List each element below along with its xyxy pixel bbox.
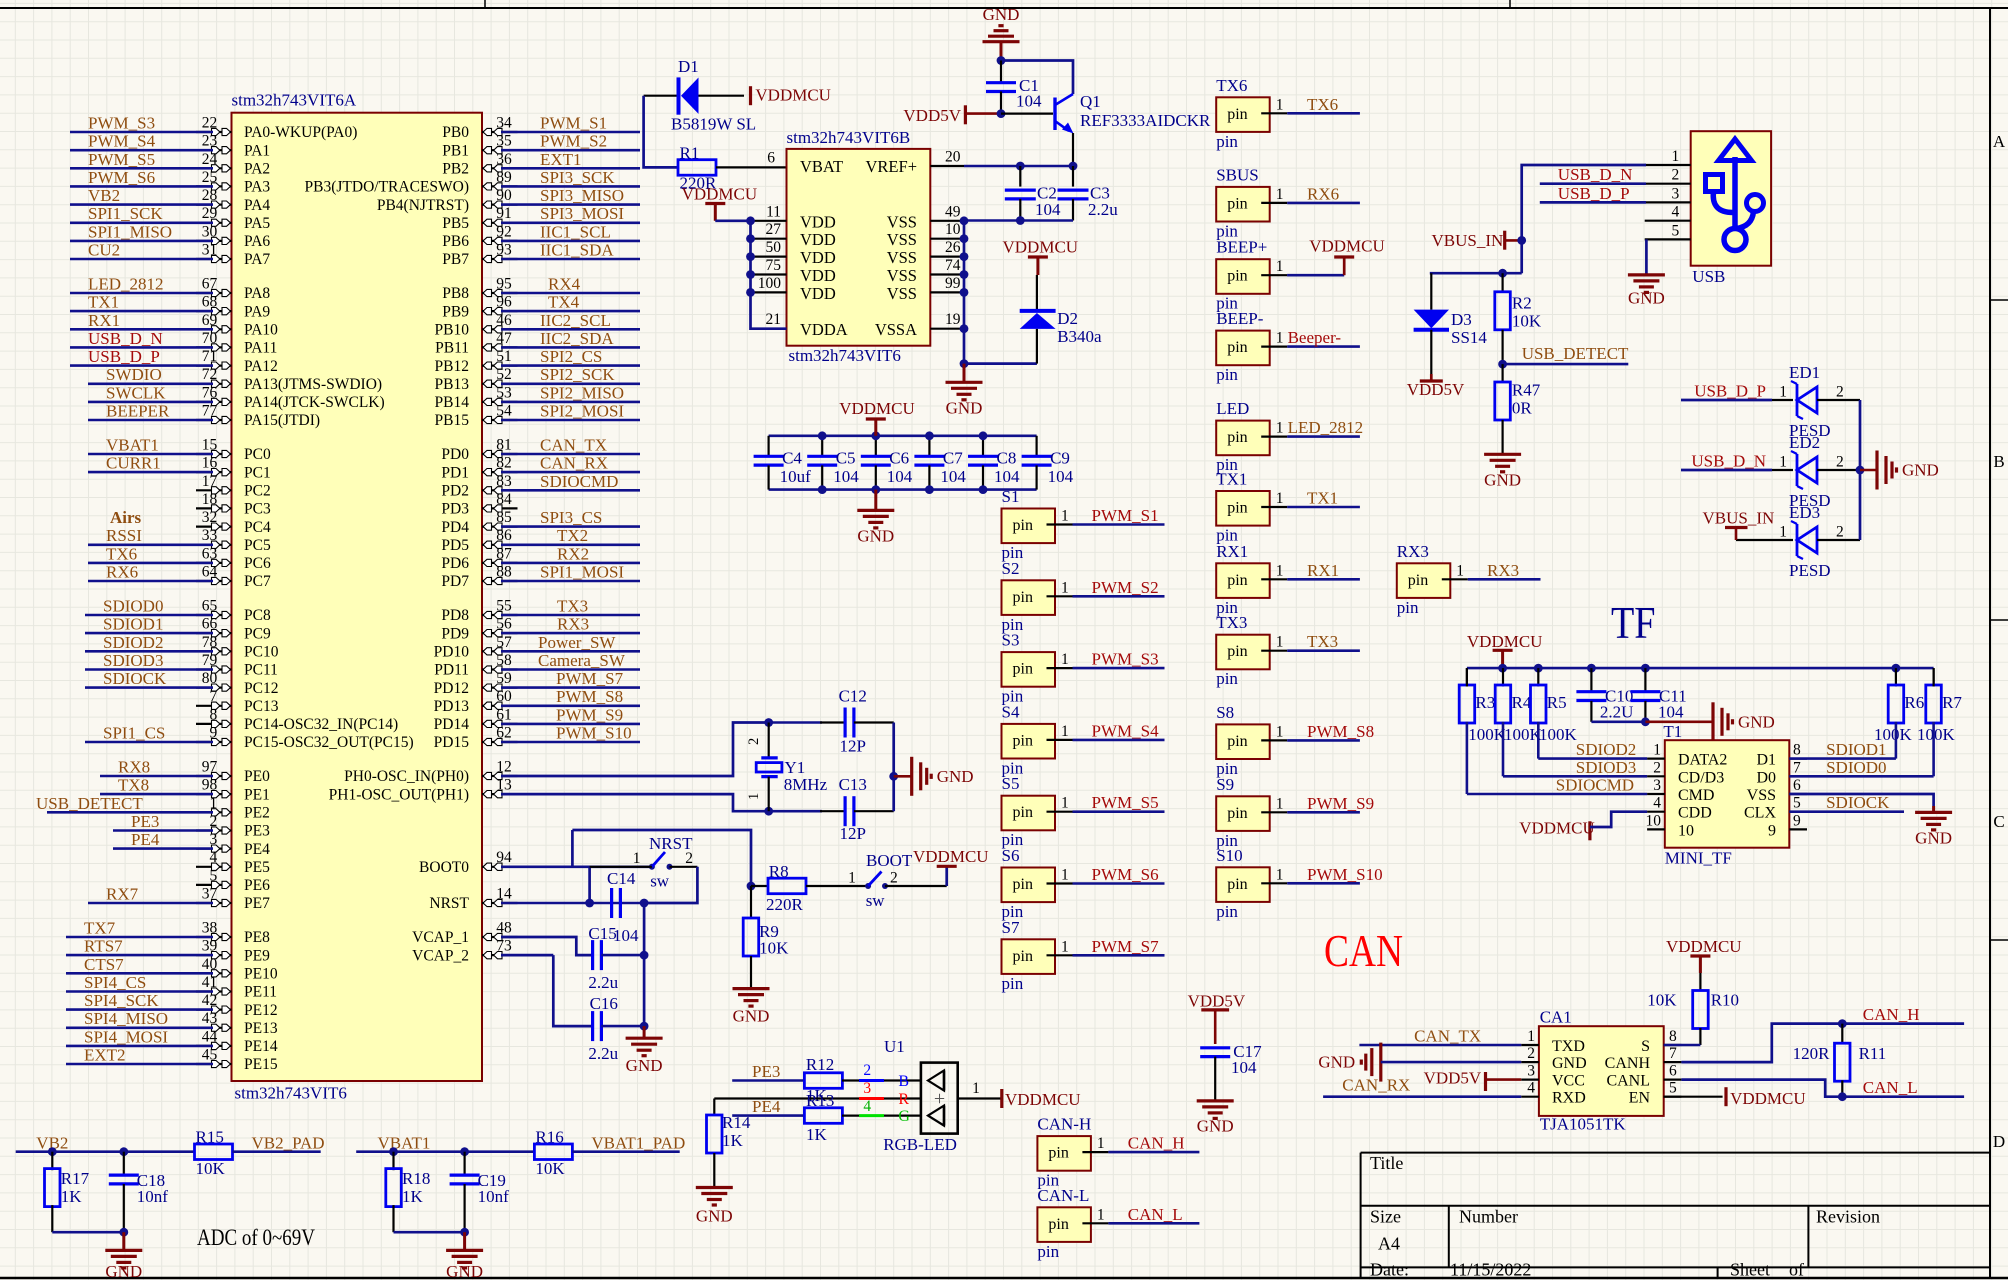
- svg-text:70: 70: [202, 330, 218, 347]
- svg-text:SPI1_MISO: SPI1_MISO: [88, 222, 172, 241]
- svg-text:104: 104: [833, 467, 859, 486]
- svg-text:C6: C6: [889, 449, 909, 468]
- svg-text:C4: C4: [782, 449, 802, 468]
- svg-text:IIC2_SCL: IIC2_SCL: [540, 311, 611, 330]
- pin 43 PE13: [196, 1027, 232, 1029]
- pin 16 PC1: [196, 471, 232, 473]
- wire SDIOD3: [1503, 775, 1647, 778]
- wire VREF rail: [964, 165, 1073, 168]
- svg-text:1: 1: [1276, 186, 1284, 203]
- svg-text:PWM_S1: PWM_S1: [1092, 506, 1159, 525]
- svg-text:Date:: Date:: [1370, 1260, 1409, 1280]
- resistor R8 220R: [751, 885, 768, 887]
- wire emitter: [1072, 133, 1074, 166]
- wire PE4: [732, 1114, 805, 1117]
- svg-text:PWM_S7: PWM_S7: [1092, 937, 1160, 956]
- svg-text:48: 48: [496, 920, 512, 937]
- svg-text:PD11: PD11: [434, 662, 469, 679]
- svg-text:33: 33: [202, 527, 218, 544]
- svg-text:104: 104: [940, 467, 966, 486]
- capacitor C12 12P: [820, 721, 845, 723]
- pin 57 PD10: [482, 650, 518, 652]
- svg-text:12P: 12P: [840, 824, 866, 843]
- wire EXT1: [501, 167, 640, 170]
- pin 45 PE15: [196, 1063, 232, 1065]
- svg-text:SPI2_SCK: SPI2_SCK: [540, 365, 615, 384]
- pin 7 PC13: [196, 705, 232, 707]
- pin 55 PD8: [482, 614, 518, 616]
- power port VDDMCU at LED: [1000, 1089, 1003, 1108]
- TVS diode ED3: [1796, 524, 1799, 556]
- wire SPI2_MOSI: [501, 419, 640, 422]
- svg-text:PH1-OSC_OUT(PH1): PH1-OSC_OUT(PH1): [329, 786, 469, 803]
- pin 30 PA6: [196, 240, 232, 242]
- svg-text:PWM_S3: PWM_S3: [88, 114, 155, 133]
- wire BOOT0 to switch: [501, 865, 652, 868]
- svg-text:104: 104: [613, 926, 639, 945]
- svg-text:PC4: PC4: [244, 519, 271, 536]
- pin 7 D0: [1789, 775, 1807, 777]
- svg-text:99: 99: [945, 275, 961, 292]
- svg-text:3: 3: [210, 831, 218, 848]
- svg-text:7: 7: [210, 688, 218, 705]
- svg-text:40: 40: [202, 956, 218, 973]
- resistor R15 10K: [195, 1144, 233, 1160]
- pin 5 CLX: [1789, 811, 1807, 813]
- svg-text:TF: TF: [1611, 597, 1656, 648]
- junction: [1587, 664, 1596, 673]
- wire to D3 and R2: [1430, 272, 1522, 275]
- svg-text:220R: 220R: [766, 895, 804, 914]
- pin 37 PE7: [196, 902, 232, 904]
- svg-text:CAN_H: CAN_H: [1863, 1005, 1920, 1024]
- wire Camera_SW: [501, 668, 640, 671]
- resistor R3 100K: [1466, 668, 1468, 686]
- wire PWM_S1: [1073, 523, 1165, 526]
- svg-text:PA8: PA8: [244, 285, 270, 302]
- svg-text:GND: GND: [446, 1262, 483, 1280]
- svg-text:VCAP_2: VCAP_2: [412, 947, 469, 964]
- svg-text:PB14: PB14: [435, 394, 470, 411]
- svg-text:47: 47: [496, 330, 512, 347]
- svg-text:73: 73: [496, 938, 512, 955]
- pin 68 PA9: [196, 310, 232, 312]
- pin 72 PA13(JTMS-SWDIO): [196, 383, 232, 385]
- wire ED bus: [1859, 400, 1862, 540]
- svg-text:U1: U1: [884, 1037, 905, 1056]
- svg-text:91: 91: [496, 205, 512, 222]
- svg-text:37: 37: [202, 886, 218, 903]
- wire TX3: [501, 614, 640, 617]
- pin 96 PB9: [482, 310, 518, 312]
- svg-text:PB3(JTDO/TRACESWO): PB3(JTDO/TRACESWO): [305, 179, 469, 196]
- svg-text:PB8: PB8: [442, 285, 469, 302]
- pin header RX1: [1216, 563, 1270, 598]
- wire crystal top rail: [769, 721, 822, 724]
- wire VCAP_2: [501, 954, 553, 957]
- svg-text:VDD5V: VDD5V: [1424, 1068, 1482, 1087]
- svg-text:10: 10: [1678, 822, 1694, 839]
- svg-text:2: 2: [863, 1062, 871, 1079]
- svg-text:RX1: RX1: [1216, 542, 1248, 561]
- pin 54 PB15: [482, 419, 518, 421]
- svg-text:PD14: PD14: [434, 716, 470, 733]
- pin header S1: [1002, 509, 1056, 544]
- wire NRST net: [501, 902, 590, 905]
- power port VDDMCU at BEEP+: [1334, 255, 1354, 258]
- svg-text:PE13: PE13: [244, 1020, 278, 1037]
- wire PWM_S5: [1073, 810, 1165, 813]
- pin 61 PD14: [482, 723, 518, 725]
- pin 52 PB13: [482, 383, 518, 385]
- svg-text:24: 24: [202, 151, 218, 168]
- svg-text:PB10: PB10: [435, 322, 470, 339]
- svg-text:TX4: TX4: [548, 293, 580, 312]
- svg-text:38: 38: [202, 920, 218, 937]
- capacitor C2 104: [1019, 166, 1021, 187]
- resistor R12 1K: [804, 1073, 842, 1089]
- svg-text:S9: S9: [1216, 775, 1234, 794]
- pin 66 PC9: [196, 632, 232, 634]
- svg-text:PA15(JTDI): PA15(JTDI): [244, 412, 320, 429]
- pin 6 VSS: [1789, 793, 1807, 795]
- svg-text:TX6: TX6: [106, 544, 137, 563]
- svg-text:25: 25: [202, 169, 218, 186]
- svg-text:VDD5V: VDD5V: [1407, 380, 1465, 399]
- pin 29 PA5: [196, 222, 232, 224]
- junction: [960, 359, 969, 368]
- pin 1 of S9: [1261, 811, 1287, 813]
- svg-text:USB_D_P: USB_D_P: [1694, 382, 1766, 401]
- svg-text:RSSI: RSSI: [106, 526, 142, 545]
- svg-text:S7: S7: [1002, 918, 1020, 937]
- svg-text:TJA1051TK: TJA1051TK: [1540, 1115, 1627, 1134]
- svg-text:GND: GND: [696, 1207, 733, 1226]
- svg-text:PC2: PC2: [244, 483, 271, 500]
- wire VBAT1: [88, 453, 213, 456]
- svg-text:8: 8: [1669, 1028, 1677, 1045]
- svg-text:sw: sw: [650, 872, 670, 891]
- junction: [640, 1022, 649, 1031]
- svg-text:CTS7: CTS7: [84, 955, 124, 974]
- svg-text:VDDMCU: VDDMCU: [1467, 632, 1543, 651]
- capacitor C18 10nf: [123, 1152, 125, 1175]
- svg-text:VDD5V: VDD5V: [1188, 992, 1246, 1011]
- LED diode arrows: [928, 1071, 944, 1091]
- wire R1 to VBAT pin 6: [716, 166, 787, 168]
- wire CAN_RX: [1323, 1095, 1521, 1098]
- svg-text:1: 1: [1276, 490, 1284, 507]
- svg-text:PE9: PE9: [244, 947, 270, 964]
- svg-text:SDIOD3: SDIOD3: [1576, 758, 1636, 777]
- svg-text:EXT2: EXT2: [84, 1046, 126, 1065]
- svg-text:VCAP_1: VCAP_1: [412, 929, 469, 946]
- wire R12 to B: [842, 1079, 859, 1081]
- svg-text:R15: R15: [196, 1127, 224, 1146]
- wire SDIOD0: [1789, 775, 1933, 778]
- svg-text:PC5: PC5: [244, 537, 271, 554]
- pin 73 VCAP_2: [482, 954, 518, 956]
- svg-text:USB_D_P: USB_D_P: [88, 347, 160, 366]
- svg-text:87: 87: [496, 545, 512, 562]
- svg-text:SDIOD0: SDIOD0: [103, 597, 163, 616]
- wire D1 to R1: [644, 96, 677, 168]
- junction: [997, 56, 1006, 65]
- svg-text:PB4(NJTRST): PB4(NJTRST): [377, 197, 469, 214]
- svg-text:54: 54: [496, 403, 512, 420]
- net label/wire ED3: [1736, 539, 1772, 541]
- svg-text:0R: 0R: [1512, 398, 1533, 417]
- capacitor C5 104: [821, 436, 823, 456]
- pin 1 of S4: [1047, 739, 1073, 741]
- wire C15 right: [601, 954, 644, 957]
- svg-text:RX6: RX6: [106, 563, 138, 582]
- svg-text:PE15: PE15: [244, 1056, 278, 1073]
- svg-text:RX1: RX1: [88, 311, 120, 330]
- svg-text:VDDMCU: VDDMCU: [839, 399, 915, 418]
- svg-text:PA2: PA2: [244, 161, 270, 178]
- power port VDDMCU at D1: [749, 86, 752, 105]
- svg-text:PE0: PE0: [244, 768, 270, 785]
- switch NRST sw: [649, 864, 655, 870]
- pin 1 of S3: [1047, 667, 1073, 669]
- svg-text:Beeper-: Beeper-: [1288, 328, 1342, 347]
- svg-text:PA14(JTCK-SWCLK): PA14(JTCK-SWCLK): [244, 394, 385, 411]
- wire to R8 junction: [572, 830, 751, 886]
- wire SDIOCK: [85, 686, 213, 689]
- svg-text:VDDA: VDDA: [800, 320, 848, 339]
- svg-text:RX2: RX2: [557, 544, 589, 563]
- pin 46 PB10: [482, 328, 518, 330]
- svg-text:G: G: [898, 1108, 910, 1125]
- TVS diode ED1: [1796, 384, 1799, 416]
- pin 41 PE11: [196, 990, 232, 992]
- svg-text:1: 1: [1276, 723, 1284, 740]
- wire Power_SW: [501, 650, 640, 653]
- svg-text:SPI2_CS: SPI2_CS: [540, 347, 602, 366]
- pin 1 of SBUS: [1261, 202, 1287, 204]
- resistor R4 100K: [1502, 668, 1504, 686]
- svg-text:42: 42: [202, 992, 218, 1009]
- svg-text:PB5: PB5: [442, 215, 469, 232]
- junction: [764, 807, 773, 816]
- wire RX4: [501, 292, 640, 295]
- svg-text:1: 1: [1276, 795, 1284, 812]
- pin 10 VSS: [930, 238, 964, 240]
- junction: [818, 431, 827, 440]
- svg-text:84: 84: [496, 491, 512, 508]
- svg-text:VB2: VB2: [88, 186, 120, 205]
- svg-text:94: 94: [496, 849, 512, 866]
- junction: [460, 1147, 469, 1156]
- svg-text:TX1: TX1: [1307, 489, 1338, 508]
- svg-text:18: 18: [202, 491, 218, 508]
- svg-text:B: B: [898, 1073, 909, 1090]
- wire cap bank top rail: [769, 434, 1037, 437]
- svg-text:CURR1: CURR1: [106, 454, 161, 473]
- svg-text:TX2: TX2: [557, 526, 588, 545]
- svg-text:RGB-LED: RGB-LED: [883, 1135, 957, 1154]
- svg-text:BOOT0: BOOT0: [419, 859, 469, 876]
- ground GND below C16: [643, 1026, 646, 1038]
- svg-text:88: 88: [496, 564, 512, 581]
- svg-text:PWM_S4: PWM_S4: [1092, 721, 1160, 740]
- pin 5 EN: [1664, 1096, 1682, 1098]
- svg-text:PE3: PE3: [752, 1062, 780, 1081]
- svg-text:PC11: PC11: [244, 662, 278, 679]
- svg-text:VDDMCU: VDDMCU: [1519, 819, 1595, 838]
- resistor R14 1K: [713, 1099, 715, 1116]
- capacitor C11 104: [1644, 668, 1646, 691]
- svg-text:63: 63: [202, 545, 218, 562]
- wire RX3: [1468, 578, 1541, 581]
- pin 33 PC5: [196, 544, 232, 546]
- junction: [818, 485, 827, 494]
- junction: [1498, 360, 1507, 369]
- svg-text:52: 52: [496, 366, 512, 383]
- pin 90 PB4(NJTRST): [482, 204, 518, 206]
- wire CTS7: [66, 972, 213, 975]
- svg-text:11: 11: [766, 203, 781, 220]
- svg-text:pin: pin: [1013, 661, 1033, 678]
- svg-text:PC0: PC0: [244, 446, 271, 463]
- pin header TX3: [1216, 635, 1270, 670]
- svg-text:Power_SW: Power_SW: [538, 633, 616, 652]
- junction: [746, 288, 755, 297]
- wire PWM_S2: [501, 149, 640, 152]
- svg-text:D0: D0: [1756, 769, 1776, 786]
- junction: [1641, 717, 1650, 726]
- junction: [746, 252, 755, 261]
- svg-text:of: of: [1789, 1260, 1804, 1280]
- svg-text:RX7: RX7: [106, 885, 139, 904]
- wire PWM_S9: [1287, 811, 1360, 814]
- junction: [1498, 664, 1507, 673]
- wire cap gnd bus: [643, 903, 646, 1026]
- svg-text:D1: D1: [678, 57, 699, 76]
- svg-text:Q1: Q1: [1080, 92, 1101, 111]
- svg-text:104: 104: [1016, 92, 1042, 111]
- svg-text:RX3: RX3: [557, 615, 589, 634]
- wire SWCLK: [88, 401, 213, 404]
- wire USB_DETECT: [1503, 363, 1629, 366]
- svg-text:SWCLK: SWCLK: [106, 383, 166, 402]
- svg-text:EXT1: EXT1: [540, 150, 582, 169]
- wire BEEPER: [88, 419, 213, 422]
- svg-text:82: 82: [496, 455, 512, 472]
- svg-text:D2: D2: [1057, 309, 1078, 328]
- svg-text:9: 9: [210, 725, 218, 742]
- svg-text:PWM_S4: PWM_S4: [88, 132, 156, 151]
- pin 1 PE2: [196, 811, 232, 813]
- svg-text:GND: GND: [937, 767, 974, 786]
- svg-text:49: 49: [945, 203, 961, 220]
- svg-text:PA4: PA4: [244, 197, 270, 214]
- wire PWM_S9: [501, 723, 640, 726]
- pin 20 VREF+: [930, 165, 964, 167]
- svg-text:104: 104: [1231, 1058, 1257, 1077]
- wire VB2_PAD: [233, 1150, 321, 1153]
- svg-text:R10: R10: [1711, 991, 1739, 1010]
- wire PH1 to crystal: [501, 794, 769, 811]
- svg-text:9: 9: [1793, 812, 1801, 829]
- svg-text:85: 85: [496, 509, 512, 526]
- svg-text:32: 32: [202, 509, 218, 526]
- wire SPI3_MISO: [501, 203, 640, 206]
- resistor R9 10K: [750, 886, 752, 918]
- svg-text:74: 74: [945, 257, 961, 274]
- junction: [925, 431, 934, 440]
- pin 36 PB2: [482, 167, 518, 169]
- svg-text:PC9: PC9: [244, 625, 271, 642]
- wire VB2: [16, 1150, 195, 1153]
- wire R colored: [859, 1097, 884, 1100]
- svg-text:PE14: PE14: [244, 1038, 278, 1055]
- svg-text:C5: C5: [836, 449, 856, 468]
- pin 7 CANH: [1664, 1061, 1682, 1063]
- wire SDIOD2: [1538, 757, 1647, 760]
- pin 89 PB3(JTDO/TRACESWO): [482, 185, 518, 187]
- wire SPI4_SCK: [66, 1008, 213, 1011]
- svg-text:2.2u: 2.2u: [588, 1044, 618, 1063]
- junction: [960, 234, 969, 243]
- svg-text:17: 17: [202, 473, 218, 490]
- pin 3 PE4: [196, 847, 232, 849]
- wire VSS bus: [964, 221, 1037, 364]
- resistor R6 100K: [1895, 668, 1897, 686]
- junction: [1534, 664, 1543, 673]
- wire R7 down: [1932, 722, 1935, 777]
- svg-text:pin: pin: [1227, 339, 1247, 356]
- ground GND below R9: [733, 987, 770, 990]
- pin 35 PB1: [482, 149, 518, 151]
- svg-text:SBUS: SBUS: [1216, 165, 1259, 184]
- svg-text:R6: R6: [1904, 693, 1924, 712]
- svg-text:pin: pin: [1408, 572, 1428, 589]
- svg-text:97: 97: [202, 759, 218, 776]
- svg-text:C16: C16: [590, 994, 618, 1013]
- title block: [1361, 1152, 1990, 1154]
- svg-text:T1: T1: [1663, 722, 1682, 741]
- pin header S4: [1002, 724, 1056, 759]
- svg-text:6: 6: [1669, 1063, 1677, 1080]
- svg-text:IIC2_SDA: IIC2_SDA: [540, 329, 614, 348]
- pin 1 TXD: [1521, 1044, 1539, 1046]
- wire VCAP_1: [501, 937, 592, 955]
- USB logo: [1724, 229, 1746, 251]
- pin 8 D1: [1789, 757, 1807, 759]
- svg-text:VSS: VSS: [887, 230, 917, 249]
- wire VB2: [70, 203, 213, 206]
- svg-text:SDIOD1: SDIOD1: [1826, 740, 1886, 759]
- svg-text:GND: GND: [1484, 471, 1521, 490]
- pin 18 PC3: [196, 507, 232, 509]
- svg-text:SDIOD1: SDIOD1: [103, 615, 163, 634]
- svg-text:C14: C14: [607, 869, 636, 888]
- svg-text:VBAT1: VBAT1: [106, 436, 159, 455]
- capacitor C4 10uf: [767, 436, 769, 456]
- pin 17 PC2: [196, 489, 232, 491]
- wire R4 down: [1502, 722, 1505, 777]
- svg-text:100K: 100K: [1539, 725, 1578, 744]
- pin 1 of S7: [1047, 954, 1073, 956]
- svg-text:S5: S5: [1002, 774, 1020, 793]
- ground GND below C17: [1197, 1099, 1234, 1102]
- wire R14 to GND: [713, 1153, 715, 1188]
- wire crystal right: [892, 723, 895, 812]
- svg-text:1: 1: [1276, 634, 1284, 651]
- capacitor C7 104: [928, 436, 930, 456]
